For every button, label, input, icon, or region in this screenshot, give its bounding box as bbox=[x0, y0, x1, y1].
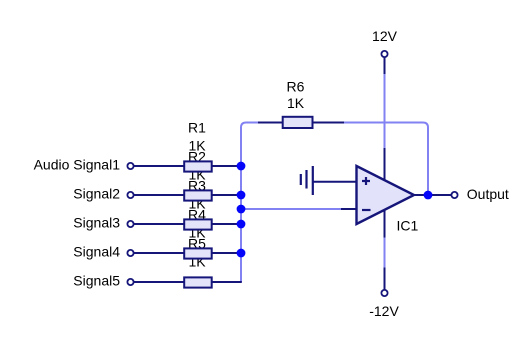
wire input row4 bbox=[134, 252, 242, 254]
resistor R5 bbox=[184, 277, 212, 287]
terminal Audio Signal1 bbox=[127, 163, 133, 169]
op-amp IC1 bbox=[357, 166, 415, 224]
svg-text:12V: 12V bbox=[372, 28, 398, 44]
wire R6 right stub bbox=[312, 122, 344, 124]
resistor R3 bbox=[184, 219, 212, 229]
svg-text:Audio Signal1: Audio Signal1 bbox=[34, 157, 121, 173]
wire positive supply middle segment bbox=[384, 74, 386, 148]
junction node output bbox=[424, 191, 433, 200]
ground bbox=[301, 166, 313, 195]
wire input row2 bbox=[134, 194, 242, 196]
svg-text:Signal2: Signal2 bbox=[73, 186, 120, 202]
wire feedback top left bbox=[246, 122, 261, 124]
wire input row1 bbox=[134, 165, 242, 167]
junction node inverting bbox=[237, 205, 246, 214]
wire noninverting input bbox=[313, 181, 357, 183]
wire R6 left stub bbox=[258, 122, 283, 124]
terminal Signal3 bbox=[127, 221, 133, 227]
label R1 bbox=[188, 120, 206, 154]
wire input row3 bbox=[134, 223, 242, 225]
junction node row4 bbox=[237, 249, 246, 258]
wire negative supply lower stub bbox=[384, 268, 386, 291]
terminal Signal2 bbox=[127, 192, 133, 198]
wire negative supply segment bbox=[384, 238, 386, 268]
resistor R1 bbox=[184, 161, 212, 171]
label R6 bbox=[287, 78, 305, 110]
svg-text:Signal4: Signal4 bbox=[73, 244, 120, 260]
wire feedback top right bbox=[343, 123, 428, 194]
wire inverting input stub bbox=[341, 208, 357, 210]
label R3 bbox=[188, 178, 206, 212]
svg-text:IC1: IC1 bbox=[397, 217, 419, 233]
label R5 bbox=[188, 236, 206, 270]
wire output bbox=[413, 194, 451, 196]
svg-text:R6: R6 bbox=[287, 78, 305, 94]
svg-text:Signal5: Signal5 bbox=[73, 273, 120, 289]
terminal Signal4 bbox=[127, 250, 133, 256]
junction node row1 bbox=[237, 162, 246, 171]
svg-text:Signal3: Signal3 bbox=[73, 215, 120, 231]
resistor R2 bbox=[184, 190, 212, 200]
resistor R6 bbox=[283, 117, 313, 128]
wire positive supply upper stub bbox=[384, 57, 386, 74]
label R4 bbox=[188, 207, 206, 241]
svg-text:-12V: -12V bbox=[369, 303, 399, 319]
wire positive supply lower stub bbox=[384, 148, 386, 182]
wire summing node vertical bbox=[241, 123, 246, 283]
svg-text:1K: 1K bbox=[287, 95, 305, 111]
junction node row2 bbox=[237, 191, 246, 200]
wire inverting input horizontal bbox=[241, 208, 342, 210]
label R2 bbox=[188, 149, 206, 183]
terminal Signal5 bbox=[127, 279, 133, 285]
terminal 12V bbox=[381, 51, 387, 57]
wire negative supply upper stub bbox=[384, 208, 386, 238]
resistor R4 bbox=[184, 248, 212, 258]
svg-text:Output: Output bbox=[467, 186, 509, 202]
junction node row3 bbox=[237, 220, 246, 229]
terminal -12V bbox=[381, 290, 387, 296]
terminal Output bbox=[451, 192, 457, 198]
svg-text:R1: R1 bbox=[188, 120, 206, 136]
wire input row5 bbox=[134, 281, 242, 283]
